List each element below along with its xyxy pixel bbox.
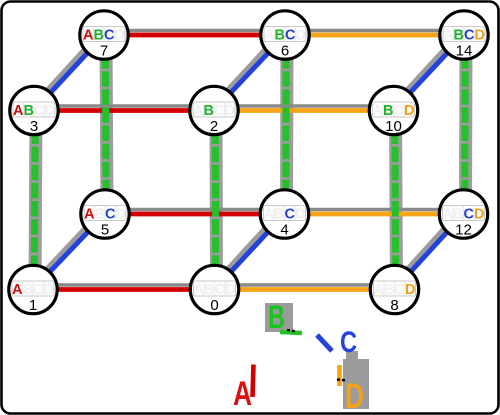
svg-text:12: 12: [455, 222, 472, 239]
legend letter C: [340, 326, 357, 359]
svg-text:B: B: [384, 282, 394, 298]
legend letter A: [233, 375, 252, 413]
edge 4-12 (D, orange): [285, 210, 464, 215]
svg-text:A: A: [12, 282, 23, 298]
svg-text:C: C: [105, 206, 116, 222]
svg-text:D: D: [224, 103, 234, 119]
svg-text:B: B: [268, 299, 285, 335]
svg-text:4: 4: [280, 222, 288, 239]
svg-text:10: 10: [385, 118, 402, 135]
svg-text:C: C: [464, 27, 475, 43]
svg-text:A: A: [193, 282, 204, 298]
svg-text:B: B: [22, 282, 32, 298]
legend tick B (black): [287, 330, 296, 332]
edge 6-14 (D, orange): [285, 31, 464, 36]
edge 6-4 (B, green dashed core): [282, 35, 290, 214]
svg-text:A: A: [373, 282, 384, 298]
legend arrow C (blue diagonal): [317, 335, 332, 351]
svg-text:D: D: [114, 27, 124, 43]
svg-text:B: B: [203, 103, 213, 119]
node 7 (ABC): [80, 11, 128, 60]
svg-text:C: C: [104, 27, 115, 43]
svg-text:B: B: [23, 103, 33, 119]
svg-text:6: 6: [281, 43, 289, 60]
svg-text:3: 3: [30, 118, 38, 135]
svg-text:A: A: [263, 206, 274, 222]
svg-text:D: D: [43, 282, 53, 298]
svg-text:C: C: [340, 326, 357, 359]
svg-text:D: D: [295, 27, 305, 43]
legend gray block D: [343, 359, 369, 409]
svg-text:C: C: [393, 103, 404, 119]
svg-text:A: A: [83, 27, 94, 43]
svg-text:14: 14: [456, 43, 473, 60]
svg-text:A: A: [372, 103, 383, 119]
edge 2-10 (D, orange): [214, 106, 394, 111]
legend gray block C: [346, 351, 358, 361]
edge 5-4 (A, red): [105, 210, 285, 215]
edge 3-1 (B, green dashed core): [34, 111, 35, 290]
edge 2-6 (C, blue diagonal): [211, 31, 285, 111]
edge 10-8 (B, green dashed core): [395, 111, 396, 290]
svg-text:C: C: [34, 103, 45, 119]
edge 7-6 (A, red): [104, 31, 285, 36]
node 4 (C): [260, 190, 308, 239]
edge 7-5 (B) gray frame: [106, 35, 107, 214]
legend letter B: [268, 299, 285, 335]
svg-text:D: D: [474, 206, 484, 222]
svg-text:B: B: [93, 27, 103, 43]
svg-text:B: B: [94, 206, 104, 222]
edge 1-5 (C, blue diagonal): [30, 210, 105, 290]
edge 3-7 (C, blue diagonal): [31, 31, 104, 111]
svg-text:D: D: [474, 27, 484, 43]
edge 14-12 (B, green dashed core): [461, 35, 469, 214]
svg-text:D: D: [44, 103, 54, 119]
svg-text:B: B: [274, 27, 284, 43]
svg-text:0: 0: [210, 297, 218, 314]
svg-text:D: D: [404, 103, 414, 119]
svg-text:D: D: [115, 206, 125, 222]
node 10 (BD): [369, 86, 417, 135]
node 1 (A): [9, 265, 57, 314]
edge 8-12 (C, blue diagonal): [392, 210, 464, 290]
node 3 (AB): [10, 86, 58, 135]
svg-text:B: B: [274, 206, 284, 222]
svg-text:C: C: [214, 282, 225, 298]
node 14 (BCD): [440, 11, 488, 60]
node 0 (empty set): [190, 265, 238, 314]
svg-text:B: B: [453, 206, 463, 222]
svg-text:A: A: [264, 27, 275, 43]
legend arrow D (orange): [337, 365, 342, 386]
svg-text:D: D: [405, 282, 415, 298]
edge 14-12 (B) gray frame: [459, 35, 473, 214]
node 8 (D): [370, 265, 418, 314]
svg-text:C: C: [214, 103, 225, 119]
edge 6-4 (B) gray frame: [280, 35, 294, 214]
node 2 (B): [190, 86, 238, 135]
svg-text:C: C: [33, 282, 44, 298]
svg-text:D: D: [295, 206, 305, 222]
node 12 (CD): [439, 190, 487, 239]
svg-text:C: C: [463, 206, 474, 222]
legend arrow A (red): [253, 365, 254, 398]
edge 0-8 (D, orange): [215, 285, 395, 290]
svg-text:C: C: [394, 282, 405, 298]
svg-text:B: B: [204, 282, 214, 298]
svg-text:8: 8: [390, 297, 398, 314]
edge 3-1 (B) gray frame: [35, 111, 36, 290]
svg-text:A: A: [233, 375, 252, 413]
legend letter D: [345, 377, 364, 415]
edge 7-5 (B, green dashed core): [105, 35, 106, 214]
svg-text:A: A: [443, 27, 454, 43]
svg-text:D: D: [225, 282, 235, 298]
node 5 (AC): [81, 190, 129, 239]
edge 0-4 (C, blue diagonal): [212, 210, 285, 290]
edge 10-14 (C, blue diagonal): [391, 31, 465, 111]
svg-text:B: B: [383, 103, 393, 119]
svg-text:D: D: [345, 377, 364, 415]
svg-text:A: A: [13, 103, 24, 119]
edge 1-0 (A, red): [33, 285, 215, 290]
svg-text:2: 2: [210, 118, 218, 135]
svg-text:1: 1: [29, 297, 37, 314]
svg-text:C: C: [284, 206, 295, 222]
edge 2-0 (B) gray frame: [210, 111, 224, 290]
svg-text:C: C: [285, 27, 296, 43]
edge 2-0 (B, green dashed core): [212, 111, 220, 290]
legend arrow B (green dash): [280, 332, 302, 333]
svg-text:5: 5: [101, 222, 109, 239]
edge 3-2 (A, red): [34, 106, 214, 111]
svg-text:A: A: [442, 206, 453, 222]
legend tick D (black): [337, 380, 347, 381]
svg-text:7: 7: [100, 43, 108, 60]
legend gray block B: [265, 303, 293, 332]
svg-text:A: A: [84, 206, 95, 222]
svg-text:A: A: [193, 103, 204, 119]
node 6 (BC): [261, 11, 309, 60]
svg-text:B: B: [453, 27, 463, 43]
edge 10-8 (B) gray frame: [396, 111, 397, 290]
